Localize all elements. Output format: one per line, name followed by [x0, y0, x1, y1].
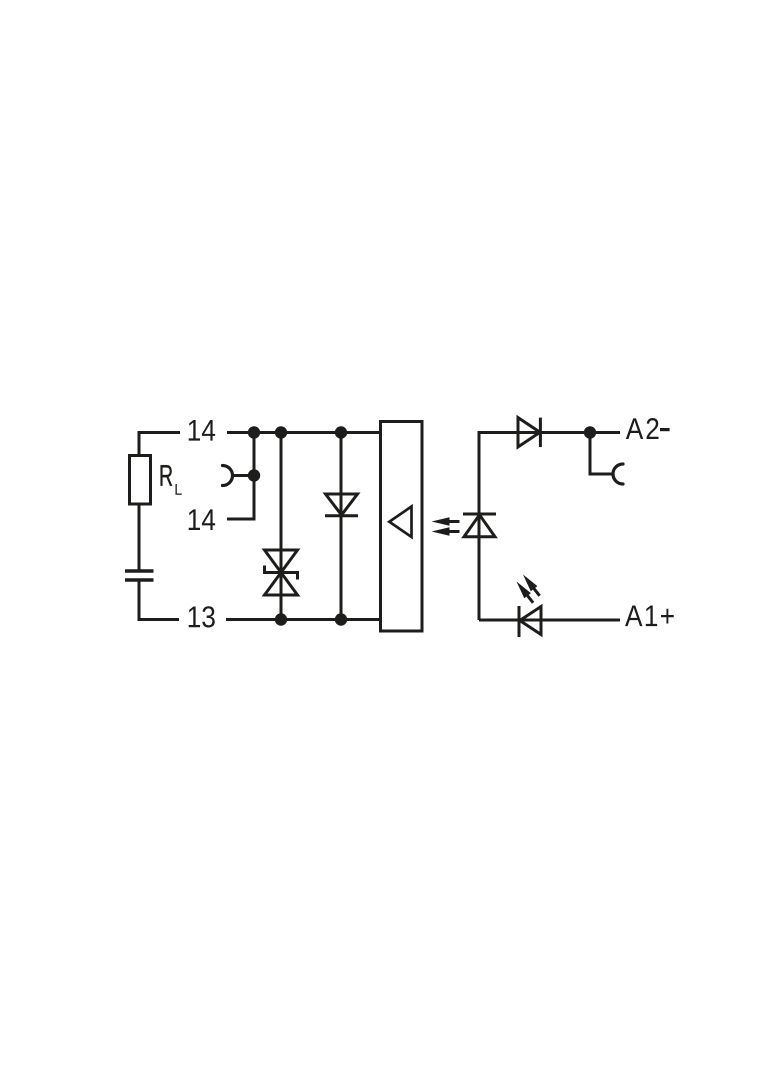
junction dot clamp 14 [248, 469, 260, 481]
LED D2 triangle [520, 607, 541, 635]
photodiode D1 triangle [464, 515, 495, 537]
capacitor C [125, 571, 154, 580]
output receiver triangle [389, 507, 411, 538]
diode V2 triangle [518, 418, 540, 447]
wire bottom from label 13 to box [226, 618, 381, 621]
wire clamp stub [233, 474, 254, 477]
wire middle diode branch vertical [340, 433, 343, 620]
wire input right vertical with top corner [479, 433, 540, 621]
load resistor label subscript L [175, 484, 181, 495]
diode V1 triangle [326, 494, 358, 515]
LED emission arrow right [520, 572, 543, 598]
terminal label 14 lower [189, 509, 215, 530]
wire resistor to capacitor [138, 504, 141, 571]
terminal label 14 top [189, 420, 215, 441]
junction dot bottom 1 [275, 613, 287, 625]
terminal label A2- [626, 418, 659, 439]
wire capacitor to bottom corner [139, 580, 179, 620]
wire clamp branch A2 [590, 433, 613, 475]
clamp contact 14 (arc open left) [223, 466, 233, 486]
junction dot top 3 [335, 426, 347, 438]
TVS suppressor diode Z-bar [265, 566, 298, 580]
junction dot top 2 [275, 426, 287, 438]
diode V1 cathode bar [325, 514, 358, 517]
terminal label A1+ [625, 605, 674, 626]
diode V2 cathode bar [539, 418, 542, 447]
wire top from label 14 to box [227, 431, 381, 434]
LED D2 cathode bar [518, 606, 521, 637]
TVS suppressor diode lower triangle [265, 573, 298, 596]
wire clamp branch vertical [227, 433, 254, 520]
junction dot A2 [584, 426, 596, 438]
wire TVS branch vertical [280, 433, 283, 620]
junction dot top 1 [248, 426, 260, 438]
terminal label 13 [189, 606, 215, 627]
optocoupler light arrow lower [432, 527, 460, 535]
TVS suppressor diode upper triangle [265, 550, 298, 573]
wire input bottom horizontal [479, 619, 620, 622]
resistor RL [130, 456, 151, 505]
terminal label A2 dash [660, 428, 670, 431]
photodiode D1 cathode bar [463, 513, 496, 516]
LED emission arrow left [513, 579, 536, 605]
optocoupler light arrow upper [432, 517, 460, 525]
load resistor label R [161, 465, 173, 486]
output switch box U1 [381, 422, 423, 632]
junction dot bottom 2 [335, 613, 347, 625]
clamp contact A2 (arc open right) [613, 464, 623, 484]
wire top-left horizontal to label 14 [139, 433, 180, 457]
wire to A2 terminal [540, 431, 620, 434]
